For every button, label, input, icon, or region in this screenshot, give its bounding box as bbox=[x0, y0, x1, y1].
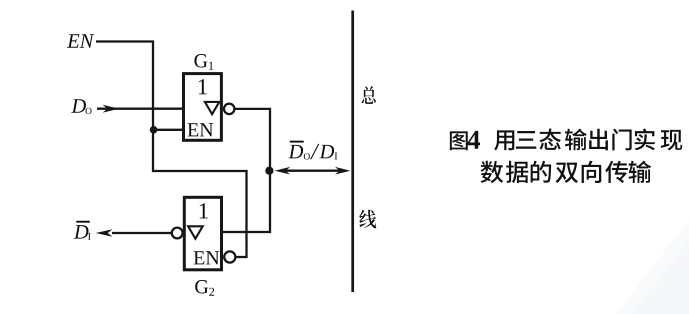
net label D0 (data output) bbox=[71, 99, 86, 112]
scan shading (decorative) is omitted from labels bbox=[616, 220, 689, 314]
net label EN (enable input) bbox=[67, 34, 79, 47]
node EN junction dot bbox=[150, 126, 158, 134]
net label D_I with overline (inverted data input) bbox=[74, 225, 89, 238]
G2 tri-state triangle symbol bbox=[188, 226, 203, 238]
wire D0 input into G1 bbox=[97, 108, 183, 110]
node bus junction dot bbox=[265, 167, 273, 175]
G2 reference designator bbox=[195, 280, 208, 293]
wire D_I output from G2 bubble to left arrow bbox=[112, 232, 172, 234]
wire EN stub into G1 EN pin bbox=[153, 129, 183, 131]
caption line 1: 图4 用三态输出门实现 bbox=[450, 129, 682, 151]
arrowhead on D_I output (points left) bbox=[96, 229, 113, 237]
net label D0bar/D_I on bus link bbox=[288, 145, 303, 158]
G2 input inversion bubble (left) bbox=[172, 228, 183, 239]
wire G1 output to bus node and down to G2 input bbox=[222, 109, 270, 232]
G1 output inversion bubble bbox=[224, 104, 234, 114]
G2 EN inversion bubble (right) bbox=[224, 251, 235, 262]
G2 label "1" (function) bbox=[200, 203, 208, 218]
G1 reference designator bbox=[194, 54, 207, 67]
arrowhead pointing left toward node bbox=[275, 167, 290, 175]
bus label 总 bbox=[362, 86, 376, 104]
G1 tri-state triangle symbol bbox=[205, 102, 219, 114]
wire bidirectional link to bus with double arrowheads bbox=[283, 170, 341, 172]
bus line (vertical) bbox=[351, 11, 354, 293]
G2 EN pin label bbox=[194, 251, 205, 264]
arrowhead on D0 input wire (points right) bbox=[103, 105, 119, 113]
arrowhead pointing right toward bus bbox=[335, 167, 350, 175]
tri-state buffer G2 box bbox=[184, 197, 221, 269]
bus label 线 bbox=[359, 210, 376, 229]
caption line 2: 数据的双向传输 bbox=[481, 161, 652, 183]
wire EN net: from EN label right, down, across, down to G2 EN bubble bbox=[96, 42, 247, 258]
G1 EN pin label bbox=[188, 123, 199, 136]
tri-state buffer G1 box bbox=[184, 74, 222, 141]
G1 label "1" (function) bbox=[199, 79, 207, 94]
